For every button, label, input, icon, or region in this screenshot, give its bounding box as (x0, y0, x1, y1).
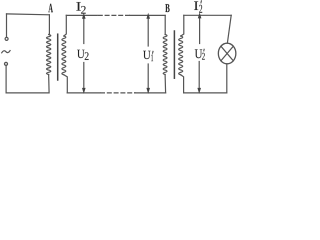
transformer T2 primary lead bottom (164, 75, 167, 93)
label B (165, 4, 169, 12)
wire: middle bottom solid right (135, 92, 166, 94)
arrowhead U2 up (82, 13, 86, 19)
transformer T1 core (57, 34, 59, 80)
wire: left loop left lower (5, 66, 7, 93)
transformer T1 secondary winding (62, 36, 66, 75)
label U2' - 2 (202, 53, 205, 60)
transformer T2 secondary lead top (181, 15, 184, 36)
label I2' - prime (201, 0, 202, 3)
wire: left loop top (7, 13, 50, 16)
voltage arrow U1' line lower (147, 64, 149, 89)
label I2' - I (194, 1, 198, 10)
label U2 - U (77, 50, 84, 58)
voltage arrow U2' line lower (198, 62, 200, 90)
wire: right loop top (184, 14, 231, 16)
transformer T2 core (173, 31, 175, 78)
label U2' - U (195, 49, 202, 58)
wire: lamp bottom lead (226, 64, 228, 93)
label U2 - 2 (85, 52, 89, 60)
transformer T1 primary lead top (48, 15, 50, 35)
transformer T2 primary lead top (164, 15, 166, 34)
voltage arrow U2 line upper (83, 19, 85, 44)
voltage arrow U1' line upper (147, 19, 149, 47)
transformer T1 secondary lead top (64, 15, 66, 36)
voltage arrow U2' line upper (199, 18, 201, 44)
wire: right loop down to lamp (227, 15, 231, 43)
lamp X stroke 2 (221, 46, 233, 61)
label A (48, 4, 53, 13)
label U1' - prime (152, 51, 153, 54)
wire: middle top solid left (66, 14, 97, 16)
label I2 - I (76, 2, 81, 11)
label I2 - 2 (81, 6, 86, 14)
wire: middle top solid right (130, 14, 165, 16)
wire: left loop bottom (6, 92, 49, 94)
wire: middle top dashed (98, 14, 130, 16)
wire: middle bottom solid left (67, 92, 100, 94)
label U1' - 1 (151, 54, 153, 61)
transformer T2 secondary winding (179, 36, 183, 75)
AC source terminal bottom (5, 62, 8, 65)
transformer T2 primary winding (163, 35, 167, 75)
lamp circle (218, 43, 236, 64)
arrowhead U1' down (146, 88, 150, 94)
lamp X stroke 1 (221, 46, 233, 61)
AC source tilde (2, 51, 10, 53)
voltage arrow U2 line lower (83, 63, 85, 90)
wire: middle bottom dashed (101, 92, 135, 94)
arrowhead U1' up (146, 13, 150, 19)
arrowhead U2' down (197, 88, 201, 94)
transformer T1 secondary lead bottom (64, 75, 67, 93)
label U1' - U (143, 51, 150, 59)
wire: right loop bottom (184, 92, 227, 94)
AC source terminal top (5, 37, 8, 40)
label U2' - prime (203, 49, 204, 52)
transformer T1 primary lead bottom (48, 75, 50, 93)
transformer T2 secondary lead bottom (181, 75, 184, 93)
label I2' - 2 (199, 5, 202, 13)
arrowhead U2 down (82, 88, 86, 94)
arrowhead U2' up (198, 12, 202, 18)
wire: left loop left upper (6, 14, 8, 37)
transformer T1 primary winding (47, 35, 51, 75)
